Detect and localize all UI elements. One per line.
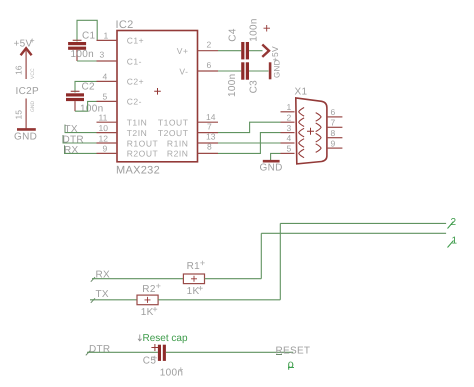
IC left pin names [127,36,159,159]
svg-text:T2IN: T2IN [127,128,148,138]
svg-text:DTR: DTR [89,344,110,355]
IC IC2 MAX232 body [116,19,198,177]
wire X1 pin5 to ground tap [271,153,281,160]
svg-text:1: 1 [287,102,292,112]
net label RX (bottom) [91,269,110,281]
pin 11 [97,113,118,123]
svg-text:16: 16 [14,65,24,75]
net label DTR (bottom) [86,344,111,356]
note label Reset cap [138,333,188,344]
svg-text:C4: C4 [227,28,238,42]
net label 1 [448,236,458,248]
wire V+ pin2 to C4 [218,50,241,52]
svg-text:V+: V+ [177,46,189,56]
X1 pin 1 [281,102,305,116]
wire RX to R1 [92,278,183,280]
X1 pin 2 [281,112,305,126]
capacitor C3 [227,62,259,97]
svg-text:R2: R2 [142,284,156,295]
wire RX to IC pin 9 [64,152,97,154]
wire C1 bottom to IC pin 3 [77,60,97,62]
supply symbol +5V (right, rotated) [262,45,280,63]
svg-text:1K: 1K [187,286,200,297]
svg-text:T1IN: T1IN [127,118,148,128]
svg-text:9: 9 [331,138,336,148]
wire TX to R2 [90,299,137,301]
svg-text:15: 15 [14,110,24,120]
svg-text:100n: 100n [160,367,183,378]
svg-text:T2OUT: T2OUT [158,128,189,138]
wire TX to IC pin 10 [65,132,97,134]
wire net1 vertical to RX [260,233,262,278]
svg-text:GND: GND [273,59,282,78]
pin 2 [198,39,219,50]
supply symbol +5V (left rail) [14,39,35,56]
wire T2OUT pin7 to X1 pin2 (jog up) [218,122,281,132]
capacitor C5 [143,344,183,378]
svg-text:R1: R1 [187,261,201,272]
pin 4 [97,72,118,82]
wire R1 to net1 corner [205,278,262,280]
svg-text:7: 7 [207,121,212,131]
X1 pin 6 [316,107,343,121]
svg-text:100n: 100n [248,18,259,41]
svg-text:6: 6 [331,107,336,117]
svg-text:4: 4 [287,133,292,143]
svg-text:+5V: +5V [14,39,33,50]
connector X1 body [296,98,327,164]
svg-text:C1+: C1+ [127,36,144,46]
X1 pin 5 [281,144,305,158]
pin 14 [198,112,219,122]
ground symbol (right, rotated) [270,59,282,79]
svg-text:1: 1 [104,31,109,41]
svg-text:MAX232: MAX232 [116,164,160,176]
wire C4 to +5V [249,50,263,52]
svg-text:1K: 1K [141,307,154,318]
pin 15 GND lead of IC2P [14,99,37,129]
IC right pin names [158,46,189,159]
svg-text:5: 5 [287,144,292,154]
svg-text:6: 6 [207,60,212,70]
wire net 2 (top long run) [280,222,446,224]
wire R2IN pin8 to X1 pin3 (jog up) [218,133,281,154]
net label TX [65,124,78,135]
capacitor C4 [227,18,270,59]
svg-text:1: 1 [452,236,458,247]
svg-text:C2: C2 [82,81,96,92]
X1 pin 8 [316,128,343,142]
wire V- pin6 to C3 [218,70,241,72]
svg-text:C1: C1 [82,31,96,42]
pin 7 [198,121,219,132]
connector X1 origin cross [307,128,314,135]
svg-text:X1: X1 [295,86,308,97]
net label RX [64,145,79,156]
svg-text:T1OUT: T1OUT [158,118,189,128]
net label RESET [276,346,311,357]
X1 pin 3 [281,123,305,137]
svg-text:9: 9 [103,144,108,154]
svg-text:IC2: IC2 [116,19,134,31]
svg-text:2: 2 [207,39,212,49]
svg-text:3: 3 [287,123,292,133]
svg-text:10: 10 [99,123,109,133]
wire C2 top to IC pin 4 [75,81,97,92]
wire C1 top to IC pin 1 [77,20,97,41]
wire net2 vertical to TX [279,223,281,299]
capacitor C1 [68,31,95,62]
wire DTR to C5 [87,351,158,353]
svg-text:12: 12 [99,133,109,143]
ground symbol (below X1) [260,161,283,173]
pin 10 [97,123,118,133]
svg-text:R2IN: R2IN [167,149,189,159]
net label TX (bottom) [91,289,109,303]
wire R1IN pin13 to X1 pin4 [218,142,281,144]
svg-text:100n: 100n [227,74,238,97]
ground symbol (left rail) [14,129,37,142]
svg-text:GND: GND [30,101,36,113]
wire DTR to IC pin 12 [63,142,97,144]
svg-text:C2+: C2+ [127,77,144,87]
svg-text:4: 4 [103,72,108,82]
wire C3 to ground [249,70,269,72]
svg-text:V-: V- [179,66,188,76]
wire C5 to RESET [166,351,293,353]
svg-text:R1OUT: R1OUT [127,138,159,148]
svg-text:ρ: ρ [288,359,294,371]
pin 13 [198,132,219,143]
svg-text:100n: 100n [71,49,94,60]
pin 6 [198,60,219,71]
svg-text:VCC: VCC [30,68,36,79]
X1 pin 7 [316,118,343,132]
X1 pin 4 [281,133,305,147]
svg-text:C5: C5 [143,356,157,367]
resistor R2 [137,284,161,319]
svg-text:DTR: DTR [63,135,84,146]
pin 8 [198,142,219,154]
pin 1 [97,31,118,41]
net flag glyph below RESET [288,359,295,371]
wire C2 bottom to IC pin 5 [75,101,97,111]
svg-text:C1-: C1- [127,56,142,66]
pin 9 [97,144,118,154]
net label DTR [63,135,84,146]
svg-text:TX: TX [65,124,78,135]
svg-text:7: 7 [331,118,336,128]
pin 16 VCC lead of IC2P [14,51,37,80]
svg-text:GND: GND [260,162,283,173]
svg-text:2: 2 [451,217,457,228]
X1 pin 9 [316,138,343,152]
wire net 1 (second long run) [261,232,446,234]
svg-text:3: 3 [100,50,105,60]
svg-text:8: 8 [207,142,212,152]
pin 5 [97,92,118,102]
svg-text:2: 2 [287,112,292,122]
svg-text:8: 8 [331,128,336,138]
svg-text:GND: GND [14,132,37,143]
svg-text:C3: C3 [248,80,259,94]
svg-text:13: 13 [206,132,216,142]
pin 3 [97,50,118,62]
net label 2 [448,217,457,229]
pin 12 [97,133,118,143]
svg-text:Reset cap: Reset cap [143,333,188,344]
wire R2 to net2 corner [158,299,280,301]
capacitor C2 [66,81,103,114]
svg-text:RX: RX [64,145,79,156]
svg-text:C2-: C2- [127,97,142,107]
svg-text:11: 11 [99,113,108,123]
resistor R1 [183,261,204,298]
svg-text:R1IN: R1IN [167,138,189,148]
svg-text:5: 5 [103,92,108,102]
svg-text:IC2P: IC2P [16,86,39,97]
svg-text:TX: TX [96,289,109,300]
svg-text:R2OUT: R2OUT [127,149,159,159]
